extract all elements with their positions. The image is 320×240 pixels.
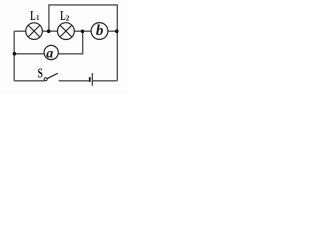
battery cell [90, 73, 93, 86]
svg-text:a: a [46, 47, 53, 62]
wire: L2 right to b left [74, 30, 91, 32]
node A junction dot [47, 29, 51, 33]
meter a [44, 45, 58, 61]
wire: b right to right vertical [108, 30, 118, 32]
svg-text:1: 1 [36, 14, 40, 22]
wire: switch fixed contact to battery [59, 80, 89, 82]
wire: a-branch right segment up to node B [58, 31, 82, 54]
meter b [91, 23, 108, 40]
svg-text:2: 2 [66, 14, 70, 23]
lamp L2 [58, 23, 75, 40]
wire: bottom row left to switch pivot [14, 80, 44, 82]
node C junction dot (right) [115, 29, 119, 33]
wire: top bypass up from node A, across top, down right side to bottom corner [49, 5, 117, 81]
wire: battery to bottom-right corner [93, 80, 117, 82]
wire: a-branch left segment [14, 53, 44, 55]
wire: left vertical from main row to bottom row [13, 31, 15, 81]
svg-text:S: S [38, 65, 44, 81]
node B junction dot [81, 30, 85, 34]
wire: main row left corner to L1 [14, 30, 26, 32]
svg-text:b: b [96, 23, 104, 39]
wire: L1 right to L2 left [42, 30, 57, 32]
lamp L1 [26, 23, 43, 40]
switch S [44, 73, 58, 81]
node D junction dot (left) [13, 52, 17, 56]
